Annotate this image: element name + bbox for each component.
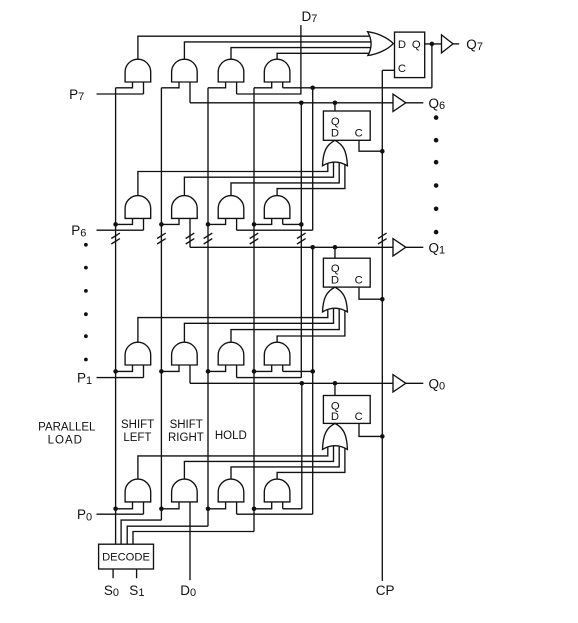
ellipsis dot left 2 xyxy=(84,266,88,270)
wire AND gate A61 output to OR gate xyxy=(138,160,328,196)
junction select line 4 at A64 xyxy=(252,222,257,227)
svg-text:Q0: Q0 xyxy=(429,376,446,392)
junction select line 3 at A13 xyxy=(206,369,211,374)
junction Q7 output feedback xyxy=(430,42,435,47)
wire AND gate A11 left input to select line xyxy=(116,365,133,371)
wire Q2 branch horizontal into A13 xyxy=(237,377,302,379)
svg-text:SHIFT: SHIFT xyxy=(170,419,203,431)
junction select line 4 at A04 xyxy=(252,507,257,512)
svg-text:D: D xyxy=(331,275,339,287)
wire Q7 branch horizontal into A63 xyxy=(237,229,313,231)
and-gate A01 (parallel-load, bit 0) xyxy=(125,479,151,502)
and-gate A14 (hold, bit 1) xyxy=(264,342,290,365)
junction select line 3 at A63 xyxy=(206,222,211,227)
and-gate A71 (parallel-load, bit 7) xyxy=(125,59,151,82)
wire AND gate A13 right input stub xyxy=(236,365,238,378)
wire select line S-shift-left vertical (decoder out 2) xyxy=(160,88,162,520)
junction select line 2 at A02 xyxy=(159,507,164,512)
junction CP at U0 xyxy=(380,434,385,439)
wire buffer B1 to Q1 terminal xyxy=(406,246,424,248)
wire Q7 branch down to A63 xyxy=(312,88,314,230)
flip-flop U6 (D flip-flop, bit 6) xyxy=(323,111,370,140)
svg-text:D0: D0 xyxy=(180,583,196,599)
wire S1 input stub xyxy=(136,569,138,578)
wire AND gate A14 right input stub xyxy=(282,365,284,371)
junction select line 3 at A03 xyxy=(206,507,211,512)
wire AND gate A01 output to OR gate xyxy=(138,443,328,479)
wire select line S-hold vertical (decoder out 4) xyxy=(253,88,255,532)
svg-text:Q6: Q6 xyxy=(429,96,446,112)
junction Q6 at flip-flop U6 output xyxy=(333,101,338,106)
wire AND gate A12 left input to select line xyxy=(161,365,179,371)
wire AND gate A63 output to OR gate xyxy=(231,160,339,196)
break marks on select load wire xyxy=(111,233,120,244)
or-gate O7 (4-input, bit 7) xyxy=(368,32,394,56)
wire S0 input stub xyxy=(112,569,114,578)
junction select line 1 at A11 xyxy=(113,369,118,374)
wire AND gate A72 right input from Q6 line xyxy=(189,82,191,103)
and-gate A02 (shift-left, bit 0) xyxy=(172,479,198,502)
ellipsis dot right 5 xyxy=(434,207,439,212)
break marks on select hold wire xyxy=(250,233,259,244)
svg-text:Q1: Q1 xyxy=(429,240,446,256)
wire AND gate A02 output to OR gate xyxy=(184,443,333,479)
wire decoder out 3 bend xyxy=(127,526,208,544)
wire AND gate A64 left input to select line xyxy=(254,218,272,224)
wire AND gate A03 output to OR gate xyxy=(231,443,339,479)
or-gate O1 (4-input, bit 1) xyxy=(323,287,348,312)
svg-text:Q: Q xyxy=(412,39,421,51)
and-gate A03 (shift-right, bit 0) xyxy=(218,479,244,502)
svg-text:DECODE: DECODE xyxy=(102,552,150,564)
flip-flop U0 (D flip-flop, bit 0) xyxy=(323,396,370,424)
svg-text:HOLD: HOLD xyxy=(215,430,247,442)
wire AND gate A73 output to OR gate xyxy=(231,48,372,60)
wire U7 Q output to buffer xyxy=(425,43,442,45)
wire buffer B0 to Q0 terminal xyxy=(406,382,424,384)
wire U6 C input to CP xyxy=(359,140,382,151)
wire D0 serial input vertical to A02 xyxy=(189,502,191,580)
junction select line 2 at A12 xyxy=(159,369,164,374)
svg-text:D: D xyxy=(331,411,339,423)
wire Q1 line from break stub to buffer xyxy=(190,246,393,248)
wire P0 input horizontal xyxy=(97,513,144,515)
wire Q6 branch vertical (continues through break to A13) xyxy=(300,103,302,378)
wire P6 input horizontal xyxy=(97,229,144,231)
wire decoder out 2 bend xyxy=(121,520,161,544)
wire Q7 feedback vertical xyxy=(431,44,433,88)
wire buffer B6 to Q6 terminal xyxy=(406,102,424,104)
wire AND gate A61 left input to select line xyxy=(116,218,133,224)
node D7 serial input wire xyxy=(237,25,301,94)
svg-text:P1: P1 xyxy=(77,371,92,387)
junction CP at U6 xyxy=(380,149,385,154)
junction select line 2 at A62 xyxy=(159,222,164,227)
wire AND gate A04 left input to select line xyxy=(254,502,272,509)
junction Q1 to branch vertical xyxy=(310,245,315,250)
junction Q1 at flip-flop U1 output xyxy=(333,245,338,250)
wire AND gate A14 left input to select line xyxy=(254,365,272,371)
ellipsis dot right 1 xyxy=(434,115,439,120)
wire AND gate A01 right input stub xyxy=(143,502,145,514)
wire AND gate A64 output to OR gate xyxy=(277,160,345,196)
svg-text:C: C xyxy=(355,128,363,140)
wire select line S-load vertical (decoder out 1) xyxy=(115,88,117,544)
wire Q1 branch vertical (to A14 and A03) xyxy=(312,247,314,514)
junction CP at U1 xyxy=(380,297,385,302)
wire AND gate A71 right input stub xyxy=(143,82,145,94)
wire AND gate A02 left input to select line xyxy=(161,502,179,509)
wire AND gate A74 right input stub xyxy=(282,82,284,88)
decoder DECODE box xyxy=(99,544,154,569)
wire A04 right input to Q0 branch xyxy=(283,508,302,510)
ellipsis dot left 5 xyxy=(84,334,88,338)
wire AND gate A61 right input stub xyxy=(143,218,145,230)
ellipsis dot right 4 xyxy=(434,183,439,188)
junction Q6 to hold branch xyxy=(299,101,304,106)
wire select line S-shift-right vertical (decoder out 3) xyxy=(207,88,209,526)
svg-text:LEFT: LEFT xyxy=(123,432,151,444)
wire AND gate A14 output to OR gate xyxy=(277,306,345,342)
break marks on select shift-right wire xyxy=(204,233,213,244)
and-gate A64 (hold, bit 6) xyxy=(264,196,290,219)
wire AND gate A72 output to OR gate xyxy=(184,42,372,59)
wire CP clock vertical xyxy=(381,70,383,581)
svg-text:SHIFT: SHIFT xyxy=(121,419,154,431)
svg-text:C: C xyxy=(355,411,363,423)
and-gate A61 (parallel-load, bit 6) xyxy=(125,196,151,219)
svg-text:PARALLEL: PARALLEL xyxy=(38,421,96,433)
svg-text:Q: Q xyxy=(331,263,340,275)
svg-text:C: C xyxy=(398,63,406,75)
wire AND gate A03 left input to select line xyxy=(208,502,226,509)
wire Q0 branch vertical to A04 xyxy=(301,383,303,509)
wire P7 input horizontal xyxy=(97,93,144,95)
wire U6 Q output stub xyxy=(334,103,336,111)
and-gate A74 (hold, bit 7) xyxy=(264,59,290,82)
junction Q1 branch at A14 xyxy=(310,369,315,374)
and-gate A04 (hold, bit 0) xyxy=(264,479,290,502)
wire AND gate A64 right input stub xyxy=(282,218,284,224)
wire AND gate A13 output to OR gate xyxy=(231,306,339,342)
svg-text:S0: S0 xyxy=(104,583,119,599)
or-gate O6 (4-input, bit 6) xyxy=(323,140,348,166)
wire AND gate A13 left input to select line xyxy=(208,365,226,371)
wire Q6 line from A72 input to buffer xyxy=(190,102,393,104)
wire AND gate A74 left input to select line xyxy=(254,82,272,88)
wire U1 C input to CP xyxy=(359,287,382,299)
wire AND gate A01 left input to select line xyxy=(116,502,133,509)
ellipsis dot right 3 xyxy=(434,160,439,165)
wire buffer B7 to Q7 terminal xyxy=(453,43,459,45)
buffer B1 output driver xyxy=(393,239,406,256)
ellipsis dot left 3 xyxy=(84,289,88,293)
junction Q0 at flip-flop U0 output xyxy=(333,381,338,386)
wire AND gate A71 output to OR gate xyxy=(138,36,372,59)
wire AND gate A63 right input stub xyxy=(236,218,238,230)
wire AND gate A63 left input to select line xyxy=(208,218,226,224)
wire AND gate A73 right input stub xyxy=(236,82,238,94)
wire Q1 branch horizontal into A03 xyxy=(237,513,313,515)
and-gate A73 (shift-right, bit 7) xyxy=(218,59,244,82)
and-gate A13 (shift-right, bit 1) xyxy=(218,342,244,365)
wire A64 right input to Q6 branch xyxy=(283,223,302,225)
svg-text:P6: P6 xyxy=(71,223,86,239)
wire Q0 line from A12 input to buffer xyxy=(190,382,393,384)
junction select line 4 at A14 xyxy=(252,369,257,374)
wire AND gate A04 output to OR gate xyxy=(277,443,345,479)
wire U0 C input to CP xyxy=(359,423,382,436)
svg-text:P7: P7 xyxy=(69,87,84,103)
wire U0 Q output stub xyxy=(334,383,336,395)
buffer B0 output driver xyxy=(393,375,406,392)
and-gate A62 (shift-left, bit 6) xyxy=(172,196,198,219)
ellipsis dot left 4 xyxy=(84,312,88,316)
wire AND gate A74 output to OR gate xyxy=(277,53,372,59)
ellipsis dot right 2 xyxy=(434,138,439,143)
junction Q7 feedback branch xyxy=(310,86,315,91)
or-gate O0 (4-input, bit 0) xyxy=(323,423,348,449)
svg-text:D: D xyxy=(331,128,339,140)
wire flip-flop U7 C input from CP xyxy=(382,69,394,71)
wire Q7 feedback horizontal xyxy=(283,87,432,89)
wire AND gate A62 right input through break to Q1 line xyxy=(189,218,191,247)
svg-text:D7: D7 xyxy=(302,9,318,25)
svg-text:Q7: Q7 xyxy=(466,37,483,53)
svg-text:D: D xyxy=(398,39,406,51)
junction select line 1 at A01 xyxy=(113,507,118,512)
wire AND gate A11 output to OR gate xyxy=(138,306,328,342)
flip-flop U1 (D flip-flop, bit 1) xyxy=(323,258,370,287)
junction Q0 to hold branch xyxy=(300,381,305,386)
break marks on Q1/Q5 stub wire xyxy=(186,233,195,244)
wire AND gate A62 left input to select line xyxy=(161,218,179,224)
ellipsis dot left 6 xyxy=(84,358,88,362)
break marks on select shift-left wire xyxy=(157,233,166,244)
wire A14 right input to Q1 branch xyxy=(283,370,313,372)
wire U1 Q output stub xyxy=(334,247,336,258)
svg-text:C: C xyxy=(355,275,363,287)
wire AND gate A72 left input to select line xyxy=(161,82,179,88)
wire AND gate A11 right input stub xyxy=(143,365,145,378)
junction select line 1 at A61 xyxy=(113,222,118,227)
wire decoder out 4 bend xyxy=(133,532,254,545)
svg-text:RIGHT: RIGHT xyxy=(168,432,204,444)
and-gate A12 (shift-left, bit 1) xyxy=(172,342,198,365)
and-gate A63 (shift-right, bit 6) xyxy=(218,196,244,219)
junction Q6 branch at A64 xyxy=(299,222,304,227)
wire AND gate A71 left input to select line xyxy=(116,82,133,88)
break marks on CP line wire xyxy=(378,233,387,244)
wire AND gate A12 right input from Q0 line xyxy=(189,365,191,383)
wire AND gate A03 right input stub xyxy=(236,502,238,514)
wire AND gate A04 right input stub xyxy=(282,502,284,509)
buffer B7 output driver xyxy=(442,35,454,53)
svg-text:Q: Q xyxy=(331,116,340,128)
svg-text:CP: CP xyxy=(376,583,395,598)
ellipsis dot right 6 xyxy=(434,230,439,235)
flip-flop U7 (D flip-flop, bit 7) xyxy=(395,32,425,78)
wire AND gate A62 output to OR gate xyxy=(184,160,333,196)
svg-text:LOAD: LOAD xyxy=(48,435,83,447)
svg-text:S1: S1 xyxy=(129,583,144,599)
ellipsis dot left 1 xyxy=(84,243,88,247)
break marks on Q6/Q2 branch wire xyxy=(297,233,306,244)
and-gate A11 (parallel-load, bit 1) xyxy=(125,342,151,365)
buffer B6 output driver xyxy=(393,94,406,111)
wire AND gate A12 output to OR gate xyxy=(184,306,333,342)
wire AND gate A73 left input to select line xyxy=(208,82,226,88)
svg-text:P0: P0 xyxy=(77,507,92,523)
and-gate A72 (shift-left, bit 7) xyxy=(172,59,198,82)
wire P1 input horizontal xyxy=(97,377,144,379)
